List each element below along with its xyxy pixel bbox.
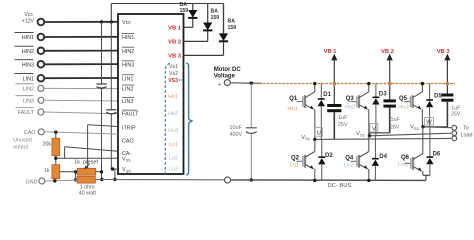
capacitor C2 (Vcc decoupling) (106, 110, 116, 114)
diode D1 (318, 84, 325, 140)
wire CAO row (44, 132, 118, 134)
svg-text:FAULT: FAULT (122, 112, 139, 118)
arrow VB2 (381, 49, 394, 61)
capacitor C1 (Vcc decoupling) (96, 84, 106, 88)
svg-text:D6: D6 (433, 152, 441, 158)
svg-text:BA: BA (228, 19, 236, 25)
svg-text:To: To (463, 126, 469, 132)
svg-text:Lo2: Lo2 (169, 156, 178, 162)
svg-text:LIN2: LIN2 (122, 87, 133, 93)
svg-text:Lo3: Lo3 (169, 167, 178, 173)
svg-text:HIN2: HIN2 (122, 49, 134, 55)
input terminal CAO (unused output) (13, 129, 44, 151)
svg-text:U: U (317, 130, 321, 136)
node Q1 collector rail junction (313, 82, 316, 85)
svg-text:Lo2: Lo2 (344, 162, 354, 168)
diode D5 (426, 84, 433, 127)
svg-text:HIN3: HIN3 (22, 62, 34, 68)
svg-text:159: 159 (180, 8, 189, 14)
svg-text:159: 159 (211, 15, 220, 21)
svg-text:1 ohm: 1 ohm (80, 184, 95, 190)
svg-text:Ho2: Ho2 (345, 104, 356, 110)
svg-text:40 watt: 40 watt (79, 191, 97, 197)
svg-text:LIN3: LIN3 (122, 99, 133, 105)
svg-text:Q1: Q1 (289, 96, 298, 102)
svg-text:159: 159 (228, 25, 237, 31)
svg-text:25V: 25V (338, 122, 348, 128)
svg-text:HIN2: HIN2 (22, 49, 34, 55)
svg-text:+12V: +12V (22, 18, 35, 24)
svg-text:Voltage: Voltage (214, 74, 236, 80)
node W junction (421, 125, 424, 128)
svg-text:Lo1: Lo1 (169, 142, 178, 148)
input terminal LIN1 (15, 74, 45, 83)
svg-text:Load: Load (461, 133, 473, 139)
wire HIN2 row (44, 50, 118, 52)
wire HIN1 row (44, 36, 118, 38)
svg-text:Q5: Q5 (399, 96, 408, 102)
svg-text:Vcc: Vcc (122, 20, 131, 26)
node preset right junction (100, 170, 103, 173)
capacitor C6 bootstrap 1uF 25V (441, 60, 453, 127)
node Q2 emitter rail junction (313, 179, 316, 182)
svg-text:Ho2: Ho2 (168, 111, 178, 117)
svg-text:Q6: Q6 (401, 155, 410, 161)
svg-text:D4: D4 (379, 154, 387, 160)
svg-text:Q3: Q3 (346, 96, 355, 102)
wire Vcc riser A lower (101, 88, 103, 179)
svg-text:400V: 400V (230, 132, 243, 138)
svg-text:FAULT: FAULT (18, 110, 35, 116)
svg-text:BA: BA (180, 2, 188, 8)
svg-text:VS3: VS3 (410, 125, 419, 131)
svg-text:ITRIP: ITRIP (122, 126, 136, 132)
svg-text:CAO: CAO (122, 139, 134, 145)
wire top rail corner to D9 (223, 4, 225, 33)
svg-text:Ho1: Ho1 (287, 107, 298, 113)
wire preset arrow (86, 164, 90, 169)
svg-text:1uF: 1uF (391, 117, 401, 123)
node U box label (315, 128, 323, 137)
wire CA- row (65, 147, 118, 152)
input terminal LIN2 (16, 84, 44, 93)
svg-text:Vcc: Vcc (24, 12, 33, 18)
wire DC- bottom rail (231, 179, 427, 182)
diode D4 (372, 136, 379, 181)
wire C5 bottom link (369, 132, 389, 134)
svg-text:LIN3: LIN3 (23, 98, 34, 104)
svg-text:VS2: VS2 (356, 131, 365, 137)
node 10uF cap top junction (250, 82, 253, 85)
resistor R3 1k preset (77, 168, 96, 175)
svg-text:VB 2: VB 2 (168, 40, 181, 46)
svg-text:25V: 25V (451, 111, 461, 117)
wire C6 bottom link (423, 126, 447, 128)
svg-text:V: V (372, 126, 376, 132)
wire Vso row (111, 168, 118, 170)
terminal Motor DC negative (225, 177, 231, 183)
svg-text:Vs1: Vs1 (169, 64, 178, 70)
wire top-left rail (111, 3, 223, 5)
annotation blue dashed line (165, 63, 170, 176)
svg-text:HIN1: HIN1 (22, 35, 34, 41)
wire Vcc riser B upper (110, 22, 112, 110)
svg-text:Ho3: Ho3 (168, 128, 178, 134)
arrow VB1 (324, 49, 338, 61)
terminal To Load 2 (452, 131, 457, 136)
wire shunt right to motor terminal (95, 179, 224, 181)
node Q3 collector rail junction (367, 82, 370, 85)
svg-text:VS3: VS3 (168, 78, 178, 84)
input terminal HIN1 (15, 32, 45, 41)
wire preset left lead (60, 171, 77, 173)
wire phase V row (369, 133, 451, 136)
wire ITRIP row from preset wiper (88, 125, 118, 127)
arrow VB3 (437, 49, 451, 61)
wire Vso ground riser (114, 169, 116, 180)
node V junction (368, 134, 371, 137)
node Vso junction (111, 167, 114, 170)
svg-text:Lo1: Lo1 (290, 162, 300, 168)
wire preset right lead (96, 171, 102, 173)
wire LIN2 row (44, 87, 118, 89)
input terminal GND (26, 178, 45, 185)
resistor R4 1 ohm 40 watt shunt (77, 176, 95, 183)
node CAO-20k junction (54, 131, 57, 134)
transistor Q1 (297, 84, 315, 140)
svg-text:Q4: Q4 (345, 155, 354, 161)
diode D2 (318, 139, 325, 180)
wire preset wiper riser (87, 125, 89, 169)
wire Vss row (56, 157, 118, 159)
transistor Q4 (351, 136, 369, 181)
terminal To Load 3 (452, 136, 457, 141)
wire phase W row (422, 126, 451, 129)
terminal Motor DC positive (224, 80, 230, 86)
node V box label (370, 124, 378, 133)
diode D7 BA159 bootstrap 1 (184, 4, 198, 28)
svg-text:Lo3: Lo3 (398, 162, 408, 168)
svg-text:D3: D3 (379, 92, 387, 98)
resistor R2 1k (52, 165, 60, 179)
node Vcc junction dots (100, 20, 103, 23)
svg-text:LIN1: LIN1 (23, 76, 34, 82)
svg-text:VB 1: VB 1 (324, 49, 338, 55)
svg-text:VS1: VS1 (301, 135, 310, 141)
wire DC+ top rail (orange) (255, 83, 455, 85)
diode D8 BA159 bootstrap 2 (184, 4, 213, 42)
capacitor C4 bootstrap 1uF 25V (327, 60, 341, 139)
svg-text:VB 3: VB 3 (437, 49, 451, 55)
svg-text:1uF: 1uF (338, 115, 348, 121)
wire GND rail left (45, 179, 77, 182)
svg-text:GND: GND (26, 179, 38, 185)
wire FAULT row (44, 112, 118, 114)
svg-text:Vs2: Vs2 (169, 71, 178, 77)
input terminal HIN2 (15, 46, 45, 55)
svg-text:25V: 25V (390, 125, 400, 131)
svg-text:Unused: Unused (13, 138, 32, 144)
svg-text:VB 1: VB 1 (168, 26, 182, 32)
node 20k-1k junction (54, 157, 57, 160)
wire Vcc riser A upper (101, 22, 103, 84)
svg-text:output: output (13, 144, 28, 150)
diode D9 BA159 bootstrap 3 (184, 4, 229, 56)
node 10uF cap bottom junction (250, 178, 253, 181)
annotation blue curly brace (186, 63, 192, 175)
input terminal LIN3 (16, 96, 44, 105)
svg-text:1k: 1k (44, 168, 50, 174)
svg-text:W: W (426, 119, 432, 125)
svg-text:LIN1: LIN1 (122, 76, 133, 82)
capacitor C5 bootstrap 1uF 25V (383, 60, 396, 133)
svg-text:10uF: 10uF (230, 125, 243, 131)
wire DC- rail right jog (425, 175, 427, 180)
diode D6 (426, 127, 433, 176)
svg-text:+: + (218, 82, 221, 88)
transistor Q6 (405, 127, 423, 176)
svg-text:Q2: Q2 (291, 155, 300, 161)
svg-text:HIN3: HIN3 (122, 63, 134, 69)
svg-text:BA: BA (211, 9, 219, 15)
wire LIN3 row (44, 99, 118, 102)
wire preset-shunt left link (75, 172, 77, 180)
svg-text:DC- BUS: DC- BUS (328, 183, 352, 189)
wire Vcc row (44, 21, 118, 23)
transistor Q5 (404, 84, 422, 127)
node Q5 collector rail junction (421, 82, 424, 85)
svg-text:VB 2: VB 2 (381, 49, 394, 55)
node preset left junction (74, 170, 77, 173)
transistor Q2 (297, 139, 315, 180)
wire 20k-1k column (55, 132, 57, 181)
wire phase U row (315, 138, 451, 139)
terminal To Load 1 (452, 125, 457, 130)
input terminal HIN3 (15, 60, 45, 69)
svg-text:D2: D2 (325, 153, 333, 159)
wire DC+ lead (230, 82, 262, 85)
node W box label (425, 118, 434, 125)
wire LIN1 row (44, 77, 118, 79)
svg-text:Ho1: Ho1 (168, 94, 178, 100)
resistor R1 20k (52, 138, 60, 155)
op-amp gate-driver IC U1 box (118, 14, 184, 174)
annotation blue dots after VS3 (179, 79, 181, 81)
svg-text:D5: D5 (434, 93, 442, 99)
diode D3 (372, 84, 379, 136)
wire Vcc riser B lower (110, 114, 112, 169)
input terminal Vcc +12V (22, 12, 44, 25)
svg-text:HIN1: HIN1 (122, 35, 134, 41)
svg-text:D1: D1 (323, 92, 331, 98)
node Q4 emitter rail junction (367, 179, 370, 182)
svg-text:Motor DC: Motor DC (214, 67, 242, 73)
svg-text:VB 3: VB 3 (168, 54, 182, 60)
svg-text:20k: 20k (43, 141, 52, 147)
svg-text:1k preset: 1k preset (74, 159, 98, 165)
transistor Q3 (351, 84, 369, 136)
input terminal FAULT (16, 107, 44, 116)
node GND rail dots (53, 179, 56, 182)
svg-text:Ho3: Ho3 (398, 104, 409, 110)
svg-text:CAO: CAO (24, 130, 36, 136)
capacitor C3 10uF 400V (246, 83, 257, 180)
node U junction (313, 138, 316, 141)
svg-text:LIN2: LIN2 (23, 87, 34, 93)
wire HIN3 row (44, 63, 118, 65)
